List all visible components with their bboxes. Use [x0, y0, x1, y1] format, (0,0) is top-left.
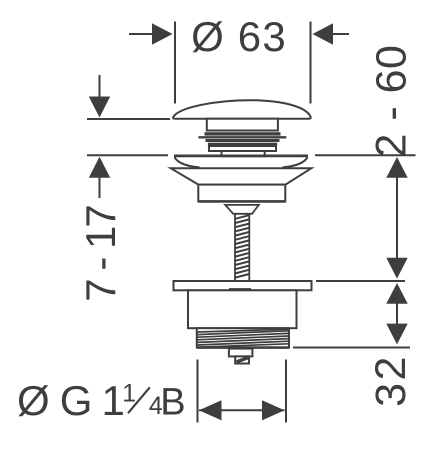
- cap ridge band 3: [208, 143, 277, 146]
- bottom dimension line with arrows: [199, 400, 285, 420]
- basin flange right horn: [283, 157, 308, 167]
- cap dome: [173, 100, 311, 119]
- dimension D63 left extension line: [174, 22, 176, 104]
- threaded pipe bottom edge: [197, 346, 289, 349]
- threaded rod right edge: [248, 213, 250, 280]
- extension line basin top (right): [315, 154, 416, 156]
- svg-text:Ø: Ø: [17, 377, 50, 424]
- dimension 2-60 line with outward arrows: [386, 157, 407, 279]
- gasket cone: [171, 168, 311, 184]
- svg-text:1: 1: [122, 380, 136, 408]
- dimension D63 left arrow: [129, 23, 173, 44]
- threaded pipe body: [197, 328, 289, 347]
- extension line flange top (right): [316, 280, 405, 282]
- bottom dimension right extension line: [285, 360, 287, 423]
- cap seal washer (wide): [198, 136, 286, 138]
- svg-text:32: 32: [367, 354, 415, 407]
- cap lower neck: [222, 151, 265, 156]
- cap ridge band 2: [206, 139, 280, 142]
- svg-text:G: G: [60, 377, 93, 424]
- dimension 7-17 upper arrow (down): [89, 75, 110, 118]
- dimension 32 line with outward arrows: [386, 283, 407, 344]
- cap lock plate: [209, 146, 276, 151]
- svg-text:2 - 60: 2 - 60: [368, 45, 416, 158]
- upper body cylinder: [198, 185, 285, 202]
- basin flange left horn: [175, 157, 200, 167]
- lower body: [188, 290, 297, 328]
- threaded rod thread hatch: [235, 215, 249, 277]
- svg-text:7 - 17: 7 - 17: [77, 206, 124, 302]
- clamp flange plate: [174, 281, 312, 290]
- basin flange top surface: [174, 154, 308, 157]
- extension line pipe end (right): [293, 347, 410, 349]
- bottom dimension left extension line: [197, 360, 199, 423]
- dimension D63 right extension line: [310, 22, 312, 104]
- cap neck: [207, 119, 278, 131]
- extension line cap rim (left): [87, 118, 170, 120]
- threaded rod left edge: [234, 213, 236, 280]
- rod nub: [229, 349, 253, 357]
- dimension D63 right arrow: [313, 23, 350, 44]
- dimension 7-17 lower arrow (up): [89, 157, 110, 198]
- svg-text:Ø 63: Ø 63: [191, 13, 287, 60]
- flange centre dash: [229, 288, 251, 290]
- upper body cylinder bottom edge: [198, 200, 285, 203]
- cap ridge band 1: [205, 132, 281, 135]
- rod end cap: [235, 356, 249, 363]
- extension line basin top (left): [87, 154, 168, 156]
- svg-text:B: B: [160, 382, 185, 424]
- funnel (screw seat): [225, 205, 259, 214]
- rod end hatch: [237, 358, 249, 362]
- thread size label fraction slash: [128, 387, 150, 413]
- threaded pipe thread lines: [197, 329, 288, 347]
